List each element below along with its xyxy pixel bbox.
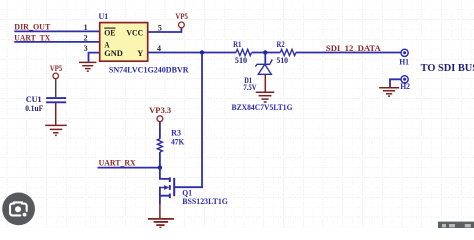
wire R3 to junction bbox=[159, 152, 161, 168]
svg-text:H2: H2 bbox=[400, 81, 410, 91]
svg-text:SN74LVC1G240DBVR: SN74LVC1G240DBVR bbox=[109, 65, 190, 75]
wire VP3.3 to R3 bbox=[159, 122, 161, 139]
junction node at gate branch bbox=[200, 50, 204, 54]
svg-text:7.5V: 7.5V bbox=[243, 82, 257, 92]
wire H2 to ground bbox=[390, 79, 401, 87]
wire zener to ground bbox=[264, 74, 266, 91]
power port VP5 (top) bbox=[179, 22, 185, 28]
source lead bbox=[160, 196, 170, 204]
svg-text:R1: R1 bbox=[233, 39, 241, 49]
svg-text:Y: Y bbox=[137, 48, 143, 58]
ground under Q1 bbox=[148, 219, 174, 228]
svg-text:3: 3 bbox=[84, 44, 88, 53]
wire VP5 to capacitor bbox=[55, 79, 57, 98]
svg-text:VP5: VP5 bbox=[175, 11, 188, 21]
resistor R1 bbox=[236, 49, 252, 55]
ground under D1 bbox=[256, 92, 275, 102]
svg-text:1: 1 bbox=[84, 23, 88, 32]
bottom-right overlay bar bbox=[438, 222, 474, 228]
connector H2 bbox=[401, 76, 408, 83]
svg-text:510: 510 bbox=[277, 55, 289, 65]
capacitor CU1 bbox=[46, 98, 66, 102]
channel segments bbox=[169, 177, 171, 198]
resistor R3 bbox=[157, 139, 162, 152]
bulk tie vertical bbox=[159, 187, 161, 196]
ground under H2 bbox=[379, 88, 399, 96]
svg-text:VP5: VP5 bbox=[50, 63, 63, 73]
wire UART_TX to U1 pin 2 bbox=[14, 41, 100, 43]
transistor Q1 bbox=[160, 53, 202, 205]
svg-text:SDI_12_DATA: SDI_12_DATA bbox=[326, 43, 382, 53]
svg-text:0.1uF: 0.1uF bbox=[25, 103, 43, 113]
svg-text:GND: GND bbox=[104, 48, 123, 58]
svg-text:TO SDI BUS: TO SDI BUS bbox=[421, 63, 474, 74]
wire DIR_OUT to U1 pin 1 bbox=[14, 30, 100, 32]
pin name OE with overline bbox=[104, 27, 116, 37]
resistor R2 bbox=[280, 49, 296, 55]
wire R2 to H1 bbox=[296, 52, 401, 54]
svg-text:OE: OE bbox=[104, 27, 116, 37]
zener diode D1 bbox=[255, 60, 272, 75]
wire capacitor to ground bbox=[55, 103, 57, 125]
svg-text:UART_TX: UART_TX bbox=[14, 33, 51, 43]
wire Q1 source to ground bbox=[159, 204, 161, 218]
op-amp-style IC body U1 bbox=[100, 23, 148, 62]
svg-text:5: 5 bbox=[158, 23, 162, 32]
wire UART_RX bbox=[98, 167, 160, 169]
ground under pin 3 bbox=[79, 62, 97, 71]
drain lead bbox=[160, 168, 170, 179]
gate lead to data line bbox=[174, 53, 202, 188]
bulk arrow bbox=[160, 187, 165, 189]
gate bar bbox=[173, 178, 175, 196]
junction node at zener branch bbox=[263, 50, 267, 54]
svg-text:H1: H1 bbox=[399, 57, 409, 67]
svg-text:47K: 47K bbox=[171, 136, 184, 146]
svg-text:4: 4 bbox=[157, 44, 161, 53]
svg-text:VP3.3: VP3.3 bbox=[149, 105, 171, 115]
svg-text:DIR_OUT: DIR_OUT bbox=[14, 22, 50, 32]
google lens overlay icon bbox=[2, 193, 35, 226]
svg-text:R2: R2 bbox=[277, 39, 285, 49]
svg-text:U1: U1 bbox=[99, 11, 109, 21]
wire U1 pin 3 to ground bbox=[89, 53, 101, 62]
wire R1 to R2 bbox=[252, 52, 281, 54]
wire U1 pin 5 to VP5 bbox=[148, 28, 182, 32]
ground under CU1 bbox=[45, 125, 67, 135]
wire U1 pin 4 (Y) to R1 bbox=[148, 52, 236, 54]
wire zener top lead bbox=[264, 53, 266, 65]
svg-text:UART_RX: UART_RX bbox=[99, 157, 137, 167]
connector H1 bbox=[401, 49, 408, 56]
svg-text:2: 2 bbox=[84, 34, 88, 43]
junction node at Q1 drain bbox=[158, 165, 162, 169]
power port VP3.3 bbox=[157, 116, 163, 122]
svg-text:BZX84C7V5LT1G: BZX84C7V5LT1G bbox=[232, 102, 293, 112]
svg-text:510: 510 bbox=[235, 55, 247, 65]
svg-text:BSS123LT1G: BSS123LT1G bbox=[182, 196, 228, 206]
svg-text:VCC: VCC bbox=[126, 27, 143, 37]
power port VP5 (left) bbox=[53, 73, 59, 79]
